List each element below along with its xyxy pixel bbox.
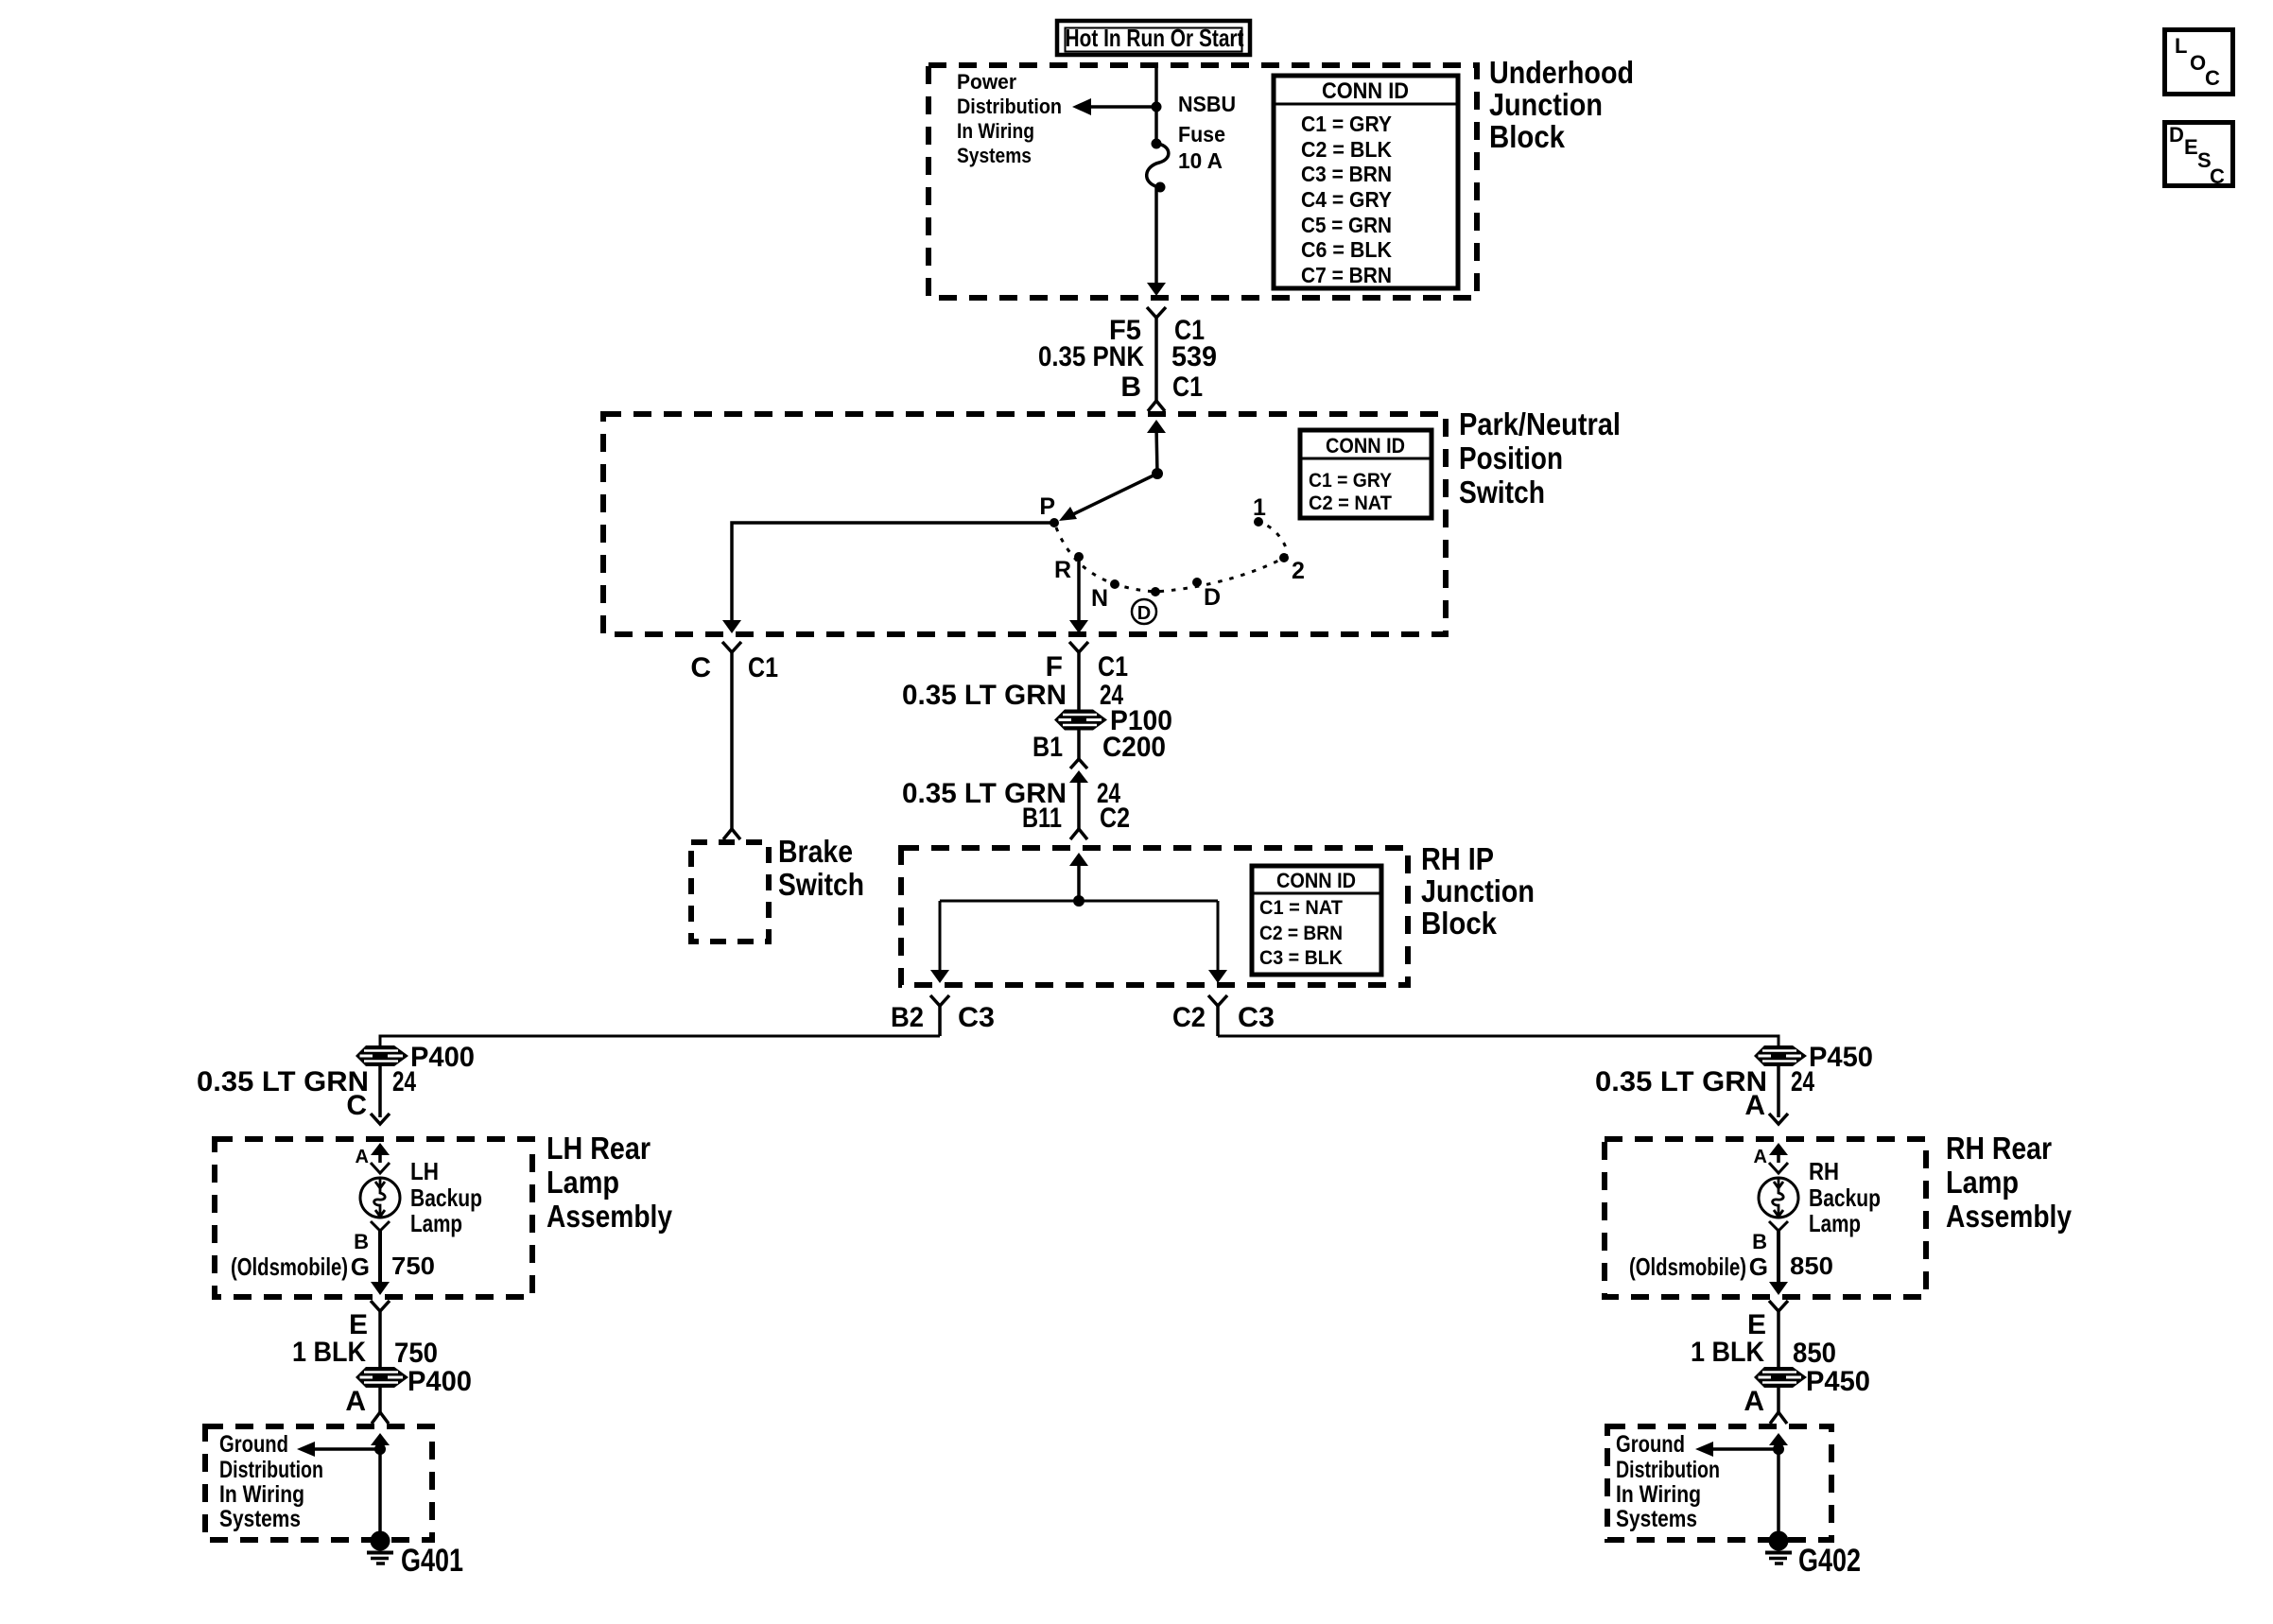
LH rear lamp assembly dashed box <box>215 1139 532 1297</box>
svg-text:C2 = BLK: C2 = BLK <box>1301 137 1392 162</box>
label: Brake Switch <box>778 834 864 902</box>
pin A male arrow inside RH lamp box <box>1769 1143 1788 1155</box>
wire: lt green to lamp <box>378 1066 382 1117</box>
male arrow inside ground box <box>371 1433 390 1445</box>
svg-text:Switch: Switch <box>1459 475 1545 510</box>
wire: RH lamp ground side <box>1777 1231 1780 1282</box>
wire: below P400 <box>378 1388 382 1412</box>
svg-text:Lamp: Lamp <box>1809 1209 1861 1237</box>
pin G male arrow at RH lamp box edge <box>1769 1282 1788 1295</box>
svg-text:C1 = GRY: C1 = GRY <box>1309 470 1392 492</box>
node: Hot In Run Or Start power feed box <box>1057 21 1250 55</box>
svg-text:(Oldsmobile): (Oldsmobile) <box>231 1253 348 1281</box>
svg-text:24: 24 <box>1791 1066 1814 1097</box>
svg-text:In Wiring: In Wiring <box>1616 1481 1701 1508</box>
junction dot + arrow to RH ground distribution <box>1695 1442 1784 1457</box>
svg-text:0.35 PNK: 0.35 PNK <box>1038 341 1144 372</box>
wire: internal bus of junction block <box>930 860 1227 983</box>
svg-text:A: A <box>1744 1090 1765 1121</box>
contact N <box>1110 579 1119 589</box>
svg-text:C1: C1 <box>1172 371 1203 403</box>
connector fork into RH IP junction block <box>1070 829 1087 839</box>
label: 0.35 LT GRN | 24 (LH) <box>197 1066 416 1097</box>
connector female below RH lamp box <box>1769 1301 1788 1311</box>
RH IP junction block dashed box <box>901 848 1408 985</box>
svg-text:E: E <box>2184 135 2198 159</box>
svg-text:Lamp: Lamp <box>410 1209 462 1237</box>
wire: black ground wire 750 <box>378 1311 382 1368</box>
LH ground distribution dashed box <box>205 1426 432 1540</box>
svg-text:Distribution: Distribution <box>219 1457 323 1483</box>
label: C | C1 <box>690 652 778 683</box>
svg-text:Position: Position <box>1459 441 1563 475</box>
svg-text:O: O <box>2190 51 2206 75</box>
connector female below RH lamp <box>1769 1221 1788 1231</box>
connector female above lamp <box>371 1163 390 1173</box>
wire: pink wire F5/539 <box>1154 318 1158 401</box>
svg-text:850: 850 <box>1793 1338 1836 1369</box>
wire: switch common feed <box>1156 427 1157 474</box>
park/neutral position switch dashed box <box>603 414 1446 634</box>
svg-text:D: D <box>2169 123 2184 147</box>
svg-text:RH: RH <box>1809 1157 1839 1185</box>
label: B | C1 <box>1120 371 1203 403</box>
fuse NSBU 10A symbol <box>1147 139 1169 193</box>
wire: below P100 <box>1077 730 1081 759</box>
connector female at LH lamp box <box>371 1114 390 1124</box>
label: NSBU Fuse 10 A <box>1178 92 1236 173</box>
wire: lt green to RH lamp <box>1777 1066 1780 1117</box>
connector C/C1 female below park box <box>722 642 741 652</box>
svg-text:F: F <box>1046 651 1063 682</box>
svg-text:Assembly: Assembly <box>1946 1199 2073 1234</box>
svg-text:Systems: Systems <box>1616 1506 1697 1532</box>
svg-text:C1: C1 <box>748 652 778 683</box>
in-line connector P100 <box>1054 710 1107 731</box>
wire: to brake switch <box>730 652 734 829</box>
connector fork into ground box <box>372 1412 389 1424</box>
connector fork into RH ground box <box>1770 1412 1787 1424</box>
label: 0.35 LT GRN | 24 (second) <box>902 778 1120 809</box>
label: 0.35 LT GRN | 24 <box>902 680 1123 711</box>
svg-text:A: A <box>345 1386 366 1417</box>
label: 1 BLK | 750 <box>292 1337 438 1369</box>
label: F | C1 <box>1046 651 1128 682</box>
contact P <box>1050 518 1059 527</box>
svg-text:C5 = GRN: C5 = GRN <box>1301 213 1392 237</box>
svg-text:B: B <box>1120 371 1141 403</box>
label: 0.35 LT GRN | 24 (RH) <box>1595 1066 1814 1097</box>
svg-text:G401: G401 <box>401 1543 463 1579</box>
male arrow inside RH ground box <box>1769 1433 1788 1445</box>
svg-text:A: A <box>356 1147 369 1167</box>
label: RH Backup Lamp <box>1809 1157 1881 1237</box>
svg-text:Switch: Switch <box>778 867 864 902</box>
svg-text:B1: B1 <box>1032 732 1063 763</box>
svg-text:750: 750 <box>394 1338 438 1369</box>
wire: from R contact down to F pin <box>1077 557 1081 621</box>
svg-text:24: 24 <box>392 1066 416 1097</box>
svg-text:C1 = NAT: C1 = NAT <box>1259 897 1343 919</box>
wire: drop into P400 <box>379 1035 382 1047</box>
svg-text:Distribution: Distribution <box>957 95 1062 118</box>
svg-text:N: N <box>1091 585 1108 612</box>
svg-text:CONN ID: CONN ID <box>1322 78 1409 104</box>
svg-text:2: 2 <box>1292 558 1305 584</box>
svg-text:P400: P400 <box>410 1042 475 1073</box>
brake switch dashed box <box>691 842 769 942</box>
switch wiper arm <box>1059 468 1163 521</box>
wire: lt green 24 to junction block <box>1077 777 1081 829</box>
pin A male arrow inside lamp box <box>371 1143 390 1155</box>
label: B11 | C2 <box>1022 803 1130 834</box>
node: Ground Distribution In Wiring Systems (LH) <box>219 1431 323 1532</box>
svg-text:C3 = BRN: C3 = BRN <box>1301 162 1392 186</box>
svg-text:0.35 LT GRN: 0.35 LT GRN <box>197 1066 369 1097</box>
svg-text:D: D <box>1137 603 1151 624</box>
svg-text:Brake: Brake <box>778 834 853 869</box>
svg-text:Fuse: Fuse <box>1178 122 1225 147</box>
contact D label <box>1192 578 1202 587</box>
connector female below lamp box <box>371 1301 390 1311</box>
svg-text:C3: C3 <box>958 1002 995 1033</box>
connector F/C1 female below park box <box>1069 642 1088 652</box>
svg-text:B11: B11 <box>1022 803 1062 834</box>
svg-text:10 A: 10 A <box>1178 148 1223 173</box>
svg-text:C4 = GRY: C4 = GRY <box>1301 187 1392 212</box>
svg-text:C: C <box>690 652 711 683</box>
svg-text:RH Rear: RH Rear <box>1946 1131 2052 1166</box>
connector B2/C3 female below block <box>891 995 995 1036</box>
wire: arrow to power distribution <box>1072 98 1156 115</box>
label: Park/Neutral Position Switch <box>1459 406 1621 510</box>
ground G401 symbol <box>367 1531 393 1564</box>
wire: black ground wire 850 <box>1777 1311 1780 1368</box>
svg-text:1: 1 <box>1253 494 1266 521</box>
svg-text:C: C <box>2205 66 2220 90</box>
svg-text:C7 = BRN: C7 = BRN <box>1301 263 1392 287</box>
label: 0.35 PNK | 539 <box>1038 341 1217 372</box>
svg-text:Power: Power <box>957 70 1016 94</box>
contact 1 <box>1254 517 1263 527</box>
svg-text:C1: C1 <box>1098 651 1128 682</box>
in-line connector P450 (bottom) <box>1754 1367 1807 1388</box>
svg-text:539: 539 <box>1171 341 1217 372</box>
svg-text:CONN ID: CONN ID <box>1276 869 1356 892</box>
svg-text:B: B <box>354 1230 369 1253</box>
wire: down to G401 <box>378 1449 382 1539</box>
svg-text:Ground: Ground <box>1616 1431 1685 1458</box>
LOC legend box <box>2165 30 2233 95</box>
svg-text:LH Rear: LH Rear <box>547 1131 651 1166</box>
svg-text:Hot In Run Or Start: Hot In Run Or Start <box>1066 24 1244 52</box>
svg-text:C2: C2 <box>1100 803 1130 834</box>
svg-text:P450: P450 <box>1806 1366 1870 1397</box>
svg-text:Junction: Junction <box>1421 873 1535 908</box>
svg-text:Lamp: Lamp <box>547 1165 619 1200</box>
wire: lt green 24 to P100 <box>1077 652 1081 711</box>
svg-text:In Wiring: In Wiring <box>219 1481 304 1508</box>
label: 1 BLK | 850 <box>1691 1337 1836 1369</box>
svg-text:850: 850 <box>1790 1252 1833 1280</box>
pin B11 male arrow inside block <box>1069 853 1088 866</box>
connector female below lamp <box>371 1221 390 1231</box>
svg-text:1 BLK: 1 BLK <box>1691 1337 1764 1368</box>
svg-text:B2: B2 <box>891 1002 924 1033</box>
label: B1 | C200 <box>1032 732 1166 763</box>
svg-text:In Wiring: In Wiring <box>957 119 1034 143</box>
svg-text:C3 = BLK: C3 = BLK <box>1259 947 1343 969</box>
svg-text:A: A <box>1754 1147 1767 1167</box>
svg-text:C3: C3 <box>1238 1002 1275 1033</box>
connector C2/C3 female below block <box>1172 995 1275 1036</box>
svg-text:C1 = GRY: C1 = GRY <box>1301 112 1392 136</box>
svg-text:C: C <box>2210 164 2225 188</box>
svg-text:0.35 LT GRN: 0.35 LT GRN <box>902 680 1067 711</box>
pin G male arrow at lamp box edge <box>371 1282 390 1295</box>
svg-text:C2 = NAT: C2 = NAT <box>1309 492 1392 514</box>
svg-text:P450: P450 <box>1809 1042 1873 1073</box>
dashed contact arc <box>1056 524 1287 592</box>
svg-text:Backup: Backup <box>410 1183 482 1212</box>
label: F5 | C1 <box>1109 315 1205 346</box>
svg-text:Backup: Backup <box>1809 1183 1881 1212</box>
wire: long run to RH rear lamp <box>1218 1035 1778 1038</box>
svg-text:Block: Block <box>1489 119 1566 154</box>
node: Ground Distribution In Wiring Systems (RH) <box>1616 1431 1720 1532</box>
junction dot + arrow to ground distribution <box>297 1442 386 1457</box>
svg-text:Systems: Systems <box>957 144 1032 167</box>
wire: lamp ground side <box>378 1231 382 1282</box>
connector C1 female half below underhood box <box>1147 307 1166 318</box>
svg-text:750: 750 <box>391 1252 435 1280</box>
label: LH Backup Lamp <box>410 1157 482 1237</box>
in-line connector P450 (top) <box>1754 1045 1807 1066</box>
svg-text:Assembly: Assembly <box>547 1199 673 1234</box>
svg-text:NSBU: NSBU <box>1178 92 1236 116</box>
underhood junction block dashed box <box>928 65 1477 298</box>
CONN ID table (underhood junction block) <box>1274 76 1458 288</box>
wire: below P450 <box>1777 1388 1780 1412</box>
LH backup lamp symbol <box>360 1178 400 1218</box>
svg-text:0.35 LT GRN: 0.35 LT GRN <box>1595 1066 1767 1097</box>
svg-text:Block: Block <box>1421 906 1498 941</box>
RH rear lamp assembly dashed box <box>1605 1139 1926 1297</box>
connector female at RH lamp box <box>1769 1114 1788 1124</box>
label: LH Rear Lamp Assembly <box>547 1131 673 1234</box>
svg-text:CONN ID: CONN ID <box>1326 434 1405 458</box>
svg-text:L: L <box>2175 34 2187 58</box>
svg-text:(Oldsmobile): (Oldsmobile) <box>1629 1253 1746 1281</box>
connector female above RH lamp <box>1769 1163 1788 1173</box>
label: RH IP Junction Block <box>1421 841 1535 941</box>
svg-text:1 BLK: 1 BLK <box>292 1337 366 1368</box>
svg-text:C: C <box>346 1090 367 1121</box>
label: (Oldsmobile) G | 750 <box>231 1252 435 1281</box>
svg-text:G: G <box>351 1253 370 1281</box>
svg-text:Lamp: Lamp <box>1946 1165 2019 1200</box>
svg-text:C6 = BLK: C6 = BLK <box>1301 237 1392 262</box>
label: (Oldsmobile) G | 850 <box>1629 1252 1833 1281</box>
ground G402 symbol <box>1765 1531 1792 1564</box>
label: RH Rear Lamp Assembly <box>1946 1131 2073 1234</box>
switch pin B male arrow inside box <box>1147 420 1166 433</box>
svg-text:G: G <box>1749 1253 1768 1281</box>
svg-text:RH IP: RH IP <box>1421 841 1494 876</box>
wire: from P contact left and down to C pin <box>732 523 1054 621</box>
junction dot to power distribution <box>1152 102 1162 112</box>
contact D <box>1151 587 1160 596</box>
contact 2 <box>1279 553 1289 562</box>
DESC legend box <box>2165 123 2233 189</box>
label: Underhood Junction Block <box>1489 55 1634 154</box>
wire: long run to LH rear lamp <box>380 1035 940 1038</box>
svg-text:B: B <box>1752 1230 1767 1253</box>
connector fork at brake switch <box>723 829 740 839</box>
wire: drop into P450 <box>1778 1035 1780 1047</box>
circled D indicator <box>1132 599 1156 624</box>
wire: down to G402 <box>1777 1449 1780 1539</box>
svg-text:A: A <box>1744 1386 1764 1417</box>
svg-text:Distribution: Distribution <box>1616 1457 1720 1483</box>
svg-text:P400: P400 <box>408 1366 472 1397</box>
svg-text:LH: LH <box>410 1157 439 1185</box>
connector fork into park/neutral switch <box>1148 401 1165 411</box>
in-line connector P400 (bottom) <box>356 1367 408 1388</box>
wire: fuse down to connector C1 <box>1154 187 1158 285</box>
RH ground distribution dashed box <box>1607 1426 1831 1540</box>
svg-text:C2 = BRN: C2 = BRN <box>1259 923 1343 944</box>
wire: feed from Hot box down to fuse <box>1154 67 1158 144</box>
CONN ID table (park/neutral switch) <box>1300 430 1431 518</box>
svg-text:Junction: Junction <box>1489 87 1603 122</box>
svg-text:C2: C2 <box>1172 1002 1206 1033</box>
svg-text:D: D <box>1204 584 1221 611</box>
svg-text:Underhood: Underhood <box>1489 55 1634 90</box>
CONN ID table (RH IP junction block) <box>1252 866 1381 975</box>
svg-text:Systems: Systems <box>219 1506 301 1532</box>
svg-text:R: R <box>1054 557 1071 583</box>
svg-text:C200: C200 <box>1102 732 1166 763</box>
contact R <box>1074 552 1084 561</box>
connector C200 pair (female chevron + male arrow) <box>1069 759 1088 783</box>
svg-text:Ground: Ground <box>219 1431 288 1458</box>
in-line connector P400 (top) <box>356 1045 408 1066</box>
svg-text:P: P <box>1039 493 1055 520</box>
connector male pin at underhood box edge <box>1147 283 1166 296</box>
svg-text:Park/Neutral: Park/Neutral <box>1459 406 1621 441</box>
node: Power Distribution In Wiring Systems reference <box>957 70 1062 167</box>
RH backup lamp symbol <box>1759 1178 1798 1218</box>
svg-text:G402: G402 <box>1798 1543 1861 1579</box>
